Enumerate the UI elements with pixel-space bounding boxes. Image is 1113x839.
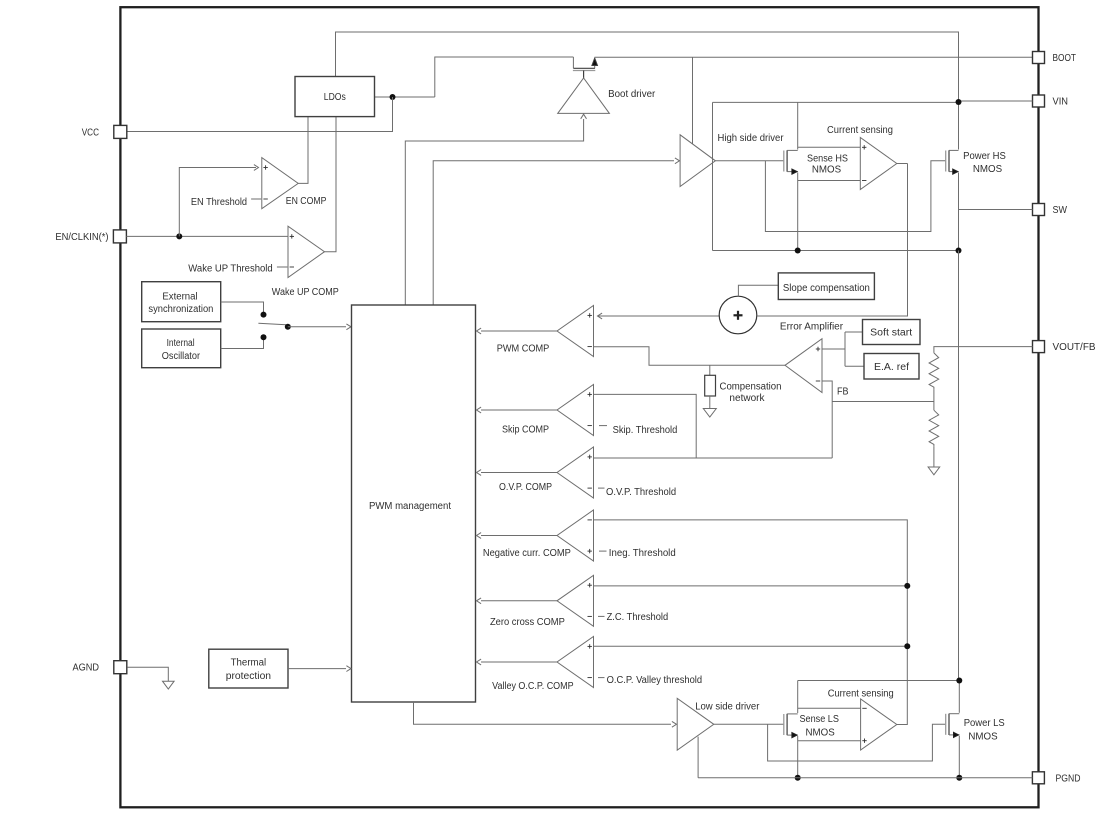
op-amp Current sensing (high side) <box>860 138 897 190</box>
comparator Valley O.C.P. COMP <box>557 637 594 688</box>
svg-text:O.C.P. Valley threshold: O.C.P. Valley threshold <box>607 675 703 686</box>
pin AGND <box>114 661 127 674</box>
wire: VOUT/FB pin to divider top <box>934 347 1033 353</box>
wire: LS current sense amp inputs <box>798 707 861 709</box>
node: zero cross tap <box>904 583 910 589</box>
wire: zero cross + input tap <box>594 585 908 587</box>
svg-text:Oscillator: Oscillator <box>162 351 201 362</box>
node: sense HS source on frame bottom <box>795 248 801 254</box>
svg-text:BOOT: BOOT <box>1053 53 1077 64</box>
wire: PGND rail to pin <box>698 777 1032 779</box>
svg-text:network: network <box>729 393 764 404</box>
wire: LS gate routing to power LS gate <box>768 724 946 761</box>
transistor: boot switch (to BOOT pin) <box>573 57 598 78</box>
svg-text:NMOS: NMOS <box>806 728 836 739</box>
wire: SW rail long vertical down <box>958 251 960 681</box>
wire: BOOT rail down to high side driver top edge <box>692 57 694 144</box>
wire: power HS source down SW rail <box>958 173 960 251</box>
svg-text:O.V.P. COMP: O.V.P. COMP <box>499 482 552 493</box>
wire: HS driver output to gates <box>715 160 783 162</box>
wire: HS gate routing to power HS gate <box>765 161 945 232</box>
wire: Skip COMP output into PWM management with arrow <box>481 409 557 411</box>
svg-text:Compensation: Compensation <box>720 382 782 393</box>
svg-text:Soft start: Soft start <box>870 328 912 339</box>
svg-text:Thermal: Thermal <box>231 657 267 668</box>
wire: current sensing frame top (low side) <box>798 680 960 682</box>
svg-text:VCC: VCC <box>82 127 99 138</box>
comparator Negative curr. COMP <box>557 510 594 561</box>
wire: PWM management bottom to low side driver input <box>414 702 672 724</box>
wire: FB horizontal to divider <box>832 401 934 403</box>
wire: LS sense amp output up to comparators <box>594 520 908 725</box>
wire: LDOs top to VIN node (top rail) <box>336 32 959 102</box>
block External synchronization <box>142 282 221 322</box>
node: LDO output junction <box>390 94 396 100</box>
label Skip. Threshold with dash <box>599 425 607 427</box>
wire: branch to Skip COMP + input <box>594 394 697 458</box>
svg-text:O.V.P. Threshold: O.V.P. Threshold <box>606 487 676 498</box>
svg-text:Valley O.C.P. COMP: Valley O.C.P. COMP <box>492 681 574 692</box>
ground below compensation network <box>709 396 711 409</box>
resistor R2 (lower divider) <box>929 410 939 446</box>
wire: PWM COMP output into PWM management with arrow <box>481 330 557 332</box>
comparator O.V.P. COMP <box>557 447 594 498</box>
label Ineg. Threshold with dash <box>599 550 607 552</box>
svg-text:Z.C. Threshold: Z.C. Threshold <box>607 612 669 623</box>
wire: HS current sense amp inputs <box>798 146 861 148</box>
svg-text:External: External <box>162 291 197 302</box>
block Internal Oscillator <box>142 329 221 368</box>
wire: error amp - input to FB node <box>822 381 832 458</box>
wire: SW rail node to power LS drain <box>958 681 960 713</box>
wire: PWM management to high side driver input <box>433 161 674 305</box>
svg-text:VIN: VIN <box>1053 97 1069 108</box>
svg-text:NMOS: NMOS <box>968 731 998 742</box>
svg-text:Wake UP COMP: Wake UP COMP <box>272 287 339 298</box>
svg-text:Skip. Threshold: Skip. Threshold <box>613 425 678 436</box>
wire: sense HS source down to frame bottom <box>797 173 799 251</box>
wire: SW pin line <box>959 209 1033 211</box>
node: power LS source on PGND <box>956 775 962 781</box>
wire: sense LS drain up to frame top <box>797 681 799 714</box>
node: SW junction on frame bottom <box>956 248 962 254</box>
svg-text:NMOS: NMOS <box>812 165 842 176</box>
pin EN/CLKIN(*) <box>113 230 126 243</box>
summing junction circle with plus <box>719 296 757 334</box>
wire: compensation network stem <box>709 365 711 375</box>
wire: internal oscillator to switch contact <box>221 340 264 349</box>
wire: external sync to switch contact <box>221 302 264 312</box>
transistor Q2 Power HS NMOS <box>946 150 959 174</box>
svg-text:Low side driver: Low side driver <box>695 702 760 713</box>
wire: junction up to EN COMP + input with arrow <box>179 168 256 237</box>
wire: boot FET to BOOT pin <box>595 56 1032 58</box>
svg-text:LDOs: LDOs <box>324 92 346 103</box>
wire: FB down to O.V.P. + input rail <box>594 457 833 459</box>
block E.A. ref <box>864 354 919 380</box>
node: switch contact upper <box>261 312 267 318</box>
svg-text:NMOS: NMOS <box>973 164 1003 175</box>
svg-text:Sense HS: Sense HS <box>807 154 848 165</box>
wire: LS driver output to gates <box>714 723 784 725</box>
svg-text:Power LS: Power LS <box>964 718 1006 729</box>
node: switch pole <box>285 324 291 330</box>
node: sense LS source on PGND rail <box>795 775 801 781</box>
wire: Negative curr. COMP output into PWM management with arrow <box>481 535 557 537</box>
op-amp: Boot driver triangle <box>558 78 610 113</box>
block Slope compensation <box>778 273 874 300</box>
wire: VCC pin to LDO output junction <box>127 97 392 132</box>
wire: boot driver input with up arrow from PWM management <box>581 114 587 119</box>
wire: PWM COMP - input to error amplifier output <box>594 347 786 366</box>
wire: HS current sensing output down to summing junction <box>757 164 908 317</box>
block PWM management <box>352 305 476 702</box>
svg-text:Boot driver: Boot driver <box>608 89 656 100</box>
pin VIN <box>1033 95 1045 107</box>
pin SW <box>1033 204 1045 216</box>
ground below divider <box>933 446 935 467</box>
svg-text:VOUT/FB: VOUT/FB <box>1053 342 1096 353</box>
comparator Wake UP COMP <box>288 226 325 277</box>
wire: error amp + input to soft start / E.A. ref <box>822 348 845 350</box>
block Soft start <box>863 320 921 345</box>
switch lever <box>258 323 286 325</box>
pin VOUT/FB <box>1033 341 1045 353</box>
op-amp Current sensing (low side) <box>861 699 897 750</box>
svg-text:Internal: Internal <box>167 338 195 349</box>
node: switch contact lower <box>261 334 267 340</box>
pin BOOT <box>1033 52 1045 64</box>
op-amp High side driver <box>680 135 715 187</box>
wire: O.V.P. COMP output into PWM management with arrow <box>481 472 557 474</box>
wire: sense HS drain up to VIN rail <box>797 102 799 149</box>
svg-text:Sense LS: Sense LS <box>799 714 839 725</box>
svg-text:AGND: AGND <box>73 663 100 674</box>
component: compensation network impedance box <box>705 375 716 396</box>
node: LS drain junction <box>956 678 962 684</box>
wire: VIN pin to node <box>959 100 1033 102</box>
svg-text:High side driver: High side driver <box>718 133 785 144</box>
label O.C.P. Valley threshold with dash <box>598 677 605 679</box>
label O.V.P. Threshold with dash <box>598 487 605 489</box>
block Thermal protection <box>209 649 288 688</box>
comparator EN COMP <box>262 158 298 209</box>
wire: divider mid node (FB) <box>933 389 935 410</box>
wire: current sensing block frame (top/left/bottom) <box>712 102 714 160</box>
svg-text:PWM management: PWM management <box>369 501 451 512</box>
wire: slope compensation to summing junction <box>738 285 778 296</box>
wire: switch pole to PWM management with arrow <box>288 326 346 328</box>
svg-text:Zero cross COMP: Zero cross COMP <box>490 617 565 628</box>
svg-text:Power HS: Power HS <box>963 151 1006 162</box>
wire: valley OCP + input tap <box>594 645 908 647</box>
pin VCC <box>114 125 127 138</box>
resistor R1 (upper divider) <box>929 353 939 389</box>
node: valley OCP tap <box>904 643 910 649</box>
svg-text:Current sensing: Current sensing <box>827 125 893 136</box>
svg-text:Slope compensation: Slope compensation <box>783 283 870 294</box>
svg-text:FB: FB <box>837 387 849 398</box>
wire: Wake UP COMP output to LDOs <box>325 117 337 252</box>
ground symbol at AGND <box>127 667 168 681</box>
svg-text:EN Threshold: EN Threshold <box>191 197 247 208</box>
svg-text:EN/CLKIN(*): EN/CLKIN(*) <box>55 232 108 243</box>
svg-text:Skip COMP: Skip COMP <box>502 424 549 435</box>
wire: LS driver ground stub to PGND rail <box>697 737 699 778</box>
svg-text:EN COMP: EN COMP <box>286 196 327 207</box>
op-amp Error Amplifier (points left) <box>785 339 822 393</box>
wire: EN/CLKIN pin line to Wake UP COMP + input <box>126 235 288 237</box>
svg-text:E.A. ref: E.A. ref <box>874 362 909 373</box>
wire: LDO output to boot FET source <box>375 96 435 98</box>
wire: thermal protection to PWM management with arrow <box>288 668 346 670</box>
block LDOs <box>295 77 375 117</box>
label Z.C. Threshold with dash <box>598 615 605 617</box>
node: EN/CLKIN junction <box>176 233 182 239</box>
wire: EN COMP output to LDOs <box>298 117 308 184</box>
svg-text:synchronization: synchronization <box>148 304 213 315</box>
comparator Skip COMP <box>557 385 594 436</box>
transistor Q3 Sense LS NMOS <box>784 714 798 738</box>
svg-text:protection: protection <box>226 671 271 682</box>
wire: summing junction to PWM COMP + input with arrow <box>598 315 720 317</box>
svg-text:Ineg. Threshold: Ineg. Threshold <box>609 548 676 559</box>
wire: HS sense amp output <box>897 163 908 165</box>
wire: power LS source to PGND rail <box>958 736 960 778</box>
wire: Zero cross COMP output into PWM management with arrow <box>481 600 557 602</box>
svg-text:Wake UP Threshold: Wake UP Threshold <box>188 263 272 274</box>
outer IC boundary box <box>120 7 1038 807</box>
comparator Zero cross COMP <box>557 575 594 626</box>
svg-text:Current sensing: Current sensing <box>828 689 894 700</box>
wire: VIN node to power HS drain <box>958 102 960 149</box>
transistor Q1 Sense HS NMOS <box>784 150 798 174</box>
wire: Valley O.C.P. COMP output into PWM management with arrow <box>481 661 557 663</box>
transistor Q4 Power LS NMOS <box>946 714 960 738</box>
svg-text:Error Amplifier: Error Amplifier <box>780 322 844 333</box>
svg-text:PWM COMP: PWM COMP <box>497 343 550 354</box>
pin PGND <box>1032 772 1044 784</box>
svg-text:Negative curr. COMP: Negative curr. COMP <box>483 548 571 559</box>
comparator PWM COMP <box>557 306 594 357</box>
op-amp Low side driver <box>677 698 714 750</box>
node: VIN junction <box>956 99 962 105</box>
svg-text:SW: SW <box>1053 205 1068 216</box>
svg-text:PGND: PGND <box>1056 773 1081 784</box>
wire: sense LS source down to PGND rail <box>797 736 799 778</box>
